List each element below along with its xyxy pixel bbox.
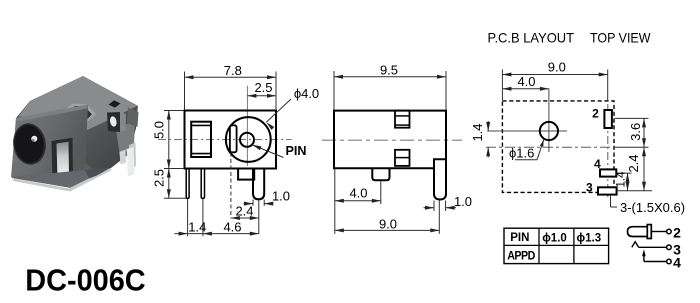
front view left contact slot <box>191 122 211 157</box>
dim 1.0 (pin width front) <box>244 189 291 206</box>
label dia 4.0 with leader <box>265 86 319 130</box>
photo body base <box>12 76 138 188</box>
front view barrel circle (dia 4.0) <box>226 117 271 162</box>
svg-text:2: 2 <box>673 224 681 240</box>
side view <box>322 111 462 200</box>
svg-text:9.0: 9.0 <box>379 216 397 231</box>
dim 9.5 (side width) <box>334 63 446 111</box>
svg-text:APPD: APPD <box>507 248 535 262</box>
side view top clip <box>395 111 410 128</box>
photo latch tab <box>127 108 139 128</box>
photo top recess <box>47 106 92 131</box>
svg-text:4: 4 <box>594 157 601 171</box>
svg-text:PIN: PIN <box>286 143 307 158</box>
dim 7.8 (front width) <box>185 63 277 110</box>
svg-text:2.4: 2.4 <box>235 203 253 218</box>
dim 2.4 (centerline to pad3) <box>615 147 653 191</box>
svg-text:P.C.B LAYOUT: P.C.B LAYOUT <box>488 30 575 46</box>
side view bottom tab <box>372 168 389 180</box>
svg-text:PIN: PIN <box>510 232 529 244</box>
spec table <box>504 228 609 263</box>
schematic switch contact <box>632 242 639 248</box>
pcb pad 4 <box>600 169 616 176</box>
photo right face <box>84 106 137 173</box>
photo shadow <box>13 169 112 192</box>
svg-text:ϕ1.0: ϕ1.0 <box>542 232 567 244</box>
pcb pad 3 <box>598 187 617 194</box>
svg-text:TOP VIEW: TOP VIEW <box>590 30 651 46</box>
photo center pin highlight <box>31 136 37 142</box>
schematic switch arm with arrow <box>643 253 645 262</box>
svg-text:4.0: 4.0 <box>517 74 535 89</box>
svg-text:2.5: 2.5 <box>152 169 167 187</box>
photo end face <box>11 105 88 178</box>
pcb hole crosshair <box>487 130 567 132</box>
front view bottom tab <box>238 169 254 180</box>
dim 4.0 (pcb hole x) <box>502 74 549 91</box>
front view center pin circle <box>240 133 254 147</box>
svg-text:7.8: 7.8 <box>224 63 242 78</box>
photo pins <box>129 143 136 169</box>
svg-text:1.0: 1.0 <box>454 194 472 209</box>
photo bottom edge shade <box>11 170 89 188</box>
svg-text:DC-006C: DC-006C <box>25 263 146 298</box>
dim 1.0 (side pin width) <box>424 194 473 211</box>
svg-text:9.0: 9.0 <box>548 60 566 75</box>
side view body <box>334 111 446 169</box>
pcb pad centerline vertical <box>607 104 609 197</box>
pcb outline (dashed) <box>502 101 614 192</box>
schematic plug barrel <box>628 227 648 237</box>
svg-text:4.0: 4.0 <box>349 186 367 201</box>
photo top hole <box>109 100 121 107</box>
svg-text:1.4: 1.4 <box>470 123 485 141</box>
svg-text:ϕ1.3: ϕ1.3 <box>576 232 601 244</box>
pcb hole (dia 1.6) <box>540 122 558 140</box>
svg-text:2.4: 2.4 <box>626 154 641 172</box>
photo front window <box>52 138 74 183</box>
dim 9.0 (pcb width to pad center) <box>502 60 607 101</box>
dim 4.0 (tab position) <box>335 169 381 234</box>
schematic terminal 4 <box>667 259 672 264</box>
front view round pin <box>253 169 264 200</box>
svg-text:4.6: 4.6 <box>223 219 241 234</box>
dim 9.0 (side, to pin center) <box>335 201 440 234</box>
svg-text:3: 3 <box>586 181 593 195</box>
svg-text:5.0: 5.0 <box>152 121 167 139</box>
svg-text:4: 4 <box>673 254 681 270</box>
front view body <box>185 111 277 169</box>
svg-text:3.6: 3.6 <box>628 123 643 141</box>
dim 5.0 (front height) <box>152 111 184 169</box>
dim 2.5 (leg length) <box>152 169 186 199</box>
schematic terminal 3 <box>667 245 672 250</box>
svg-text:3-(1.5X0.6): 3-(1.5X0.6) <box>620 200 685 215</box>
svg-text:2.5: 2.5 <box>254 80 272 95</box>
front view barrel side slot <box>230 125 237 152</box>
schematic wire pin2 <box>651 231 666 233</box>
svg-text:2: 2 <box>592 107 599 121</box>
front view leg 1 <box>186 169 189 199</box>
front view <box>158 86 292 200</box>
photo top face <box>19 76 137 134</box>
front view horizontal centerline <box>158 139 292 141</box>
photo top plateau rim <box>44 104 97 134</box>
jack schematic <box>628 224 682 270</box>
pcb centerline horizontal <box>486 146 615 148</box>
svg-text:1.4: 1.4 <box>616 171 628 188</box>
pcb pad 2 <box>604 110 612 128</box>
svg-text:ϕ1.6: ϕ1.6 <box>509 146 534 161</box>
dim 2.4 (slot to pin center) <box>231 153 259 235</box>
dims 1.4 and 4.6 (leg pitch) <box>175 199 259 236</box>
photo barrel bore <box>10 121 48 167</box>
schematic terminal 2 <box>667 229 672 234</box>
label 3-(1.5X0.6) with leader <box>611 195 686 215</box>
side view bottom clip <box>395 150 410 166</box>
front view leg 2 <box>201 169 204 199</box>
svg-text:1.0: 1.0 <box>272 189 290 204</box>
svg-text:9.5: 9.5 <box>380 63 398 78</box>
dim 2.5 (circle offset) <box>247 80 276 98</box>
dim 1.4 (hole offset) <box>470 121 502 158</box>
side view pin <box>434 159 446 199</box>
schematic wire pin3 <box>639 246 667 248</box>
svg-text:1.4: 1.4 <box>188 219 206 234</box>
dim 3.6 (pad2 to centerline) <box>615 118 649 147</box>
dim 1.4 (pad4 to pad3) <box>616 171 630 191</box>
schematic plug flange <box>647 225 651 239</box>
svg-text:ϕ4.0: ϕ4.0 <box>294 86 319 101</box>
label dia 1.6 with leader <box>509 139 545 160</box>
label PIN with leader <box>252 143 307 158</box>
photo: DC-006C 3D product photo <box>10 76 138 192</box>
front view vertical centerline <box>246 86 248 166</box>
side view centerline <box>322 139 462 141</box>
schematic wire pin4 <box>644 261 667 263</box>
